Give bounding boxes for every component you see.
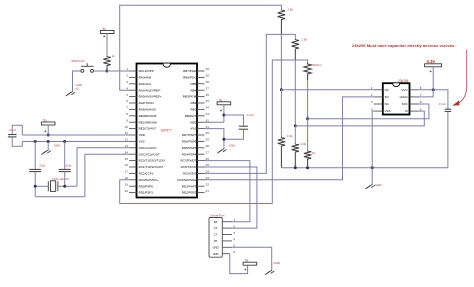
U1 pin 25 stub [197, 166, 205, 168]
svg-text:RC5/SDO: RC5/SDO [183, 172, 197, 176]
svg-text:34: 34 [206, 106, 210, 110]
switch S1 SWITCH1 [81, 63, 94, 72]
wire MCLR junction to U1 pin 1 [107, 70, 129, 72]
resistor R2 1.5k (CS divider top) [278, 10, 285, 35]
svg-text:RD2/PSP2: RD2/PSP2 [182, 191, 197, 195]
node VCC junction with 3.3v bar [432, 88, 435, 91]
resistor R7 1k (SCK divider bottom) [304, 151, 311, 168]
ground symbol at serial port [265, 270, 274, 275]
svg-text:RE1/WR/AN6: RE1/WR/AN6 [139, 120, 158, 124]
IC U2 body: 23K256 SRAM 8-pin DIP outline [383, 83, 410, 114]
svg-text:VDD: VDD [213, 252, 219, 256]
svg-text:RC6/TX/CK: RC6/TX/CK [181, 165, 197, 169]
svg-text:HOLD: HOLD [400, 95, 408, 99]
svg-text:GND: GND [229, 143, 237, 147]
IC U1 body: PIC16F877 40-pin DIP outline [137, 64, 198, 198]
capacitor C5 0.1uf at U2 [445, 108, 451, 110]
svg-text:RA4/T0CKI: RA4/T0CKI [139, 101, 154, 105]
U1 pin 28 stub [197, 147, 205, 149]
svg-text:RD7/PSP7: RD7/PSP7 [182, 133, 197, 137]
svg-text:Serial Port: Serial Port [210, 214, 224, 218]
svg-text:RE0/RD/AN5: RE0/RD/AN5 [139, 114, 157, 118]
svg-text:20: 20 [125, 189, 129, 193]
U1 pin 33 stub [197, 115, 205, 117]
svg-text:RC3/SCK/SCL: RC3/SCK/SCL [139, 178, 159, 182]
svg-text:RA1/AN1: RA1/AN1 [139, 82, 152, 86]
svg-text:RA5/AN4/SS: RA5/AN4/SS [139, 108, 156, 112]
svg-text:7: 7 [126, 106, 128, 110]
U1 pin 19 stub [129, 185, 137, 187]
svg-text:RD1/PSP1: RD1/PSP1 [139, 191, 154, 195]
svg-text:RT: RT [214, 239, 218, 243]
node B VSS junction [222, 138, 225, 141]
svg-text:3.3v: 3.3v [427, 59, 436, 64]
svg-text:RA0/AN0: RA0/AN0 [139, 76, 152, 80]
U1 pin 32 stub [197, 121, 205, 123]
U1 pin 39 stub [197, 76, 205, 78]
wire C5 bottom to ground rail [447, 111, 449, 167]
svg-text:u5: u5 [76, 87, 80, 91]
svg-text:22pf: 22pf [39, 164, 45, 168]
svg-text:16: 16 [125, 163, 129, 167]
U1 pin 17 stub [129, 172, 137, 174]
svg-text:RB3/PGM: RB3/PGM [183, 95, 197, 99]
wire crystal right to OSC1 net [58, 185, 77, 187]
U1 pin 10 stub [129, 128, 137, 130]
wire net CS_5V: U1 pin 4 RA2 up and across the top [120, 5, 282, 90]
U1 pin 23 stub [197, 179, 205, 181]
resistor R4 470ohm (SCK divider top) [304, 63, 311, 80]
wire net RX: J1 pin1 to U1 pin 26 [205, 161, 250, 222]
node OSC2 crystal junction [34, 185, 37, 188]
U2 pin 6 stub [410, 103, 419, 105]
power +5V bar VR1 (MCLR pull-up supply) [100, 31, 114, 34]
capacitor C3 22pf right [64, 142, 66, 170]
svg-text:GND: GND [213, 245, 219, 249]
svg-text:RB2: RB2 [190, 101, 196, 105]
power +5V bar VR3 (U1 VDD right) [217, 102, 231, 105]
U1 pin 34 stub [197, 108, 205, 110]
svg-text:0.1uf: 0.1uf [439, 102, 446, 106]
ground symbol right of U1 [217, 149, 226, 154]
U1 pin 40 stub [197, 70, 205, 72]
svg-text:RD4/PSP4: RD4/PSP4 [182, 152, 197, 156]
U1 pin 14 stub [129, 153, 137, 155]
U1 pin 1 stub [129, 70, 137, 72]
U1 pin 24 stub [197, 172, 205, 174]
wire ground rail of dividers to SRAM ground [281, 167, 448, 169]
power 3.3v bar VR5 [425, 64, 442, 67]
wire 5v bar to node A [223, 105, 225, 122]
U2 pin 5 stub [410, 110, 419, 112]
crystal X1 XTAL 20mhz [47, 181, 49, 191]
svg-text:28: 28 [206, 144, 210, 148]
node OSC1 cap junction [63, 185, 66, 188]
svg-text:0.1uf: 0.1uf [9, 128, 16, 132]
wire OSC2 to U1 pin 14 [35, 154, 129, 197]
svg-text:3.3k: 3.3k [301, 142, 307, 146]
svg-text:TX: TX [214, 226, 218, 230]
svg-text:CT: CT [214, 233, 218, 237]
wire SI node down to R6 [294, 126, 296, 144]
U1 pin 20 stub [129, 192, 137, 194]
svg-text:2: 2 [126, 74, 128, 78]
svg-text:23k256 Must have capacitor dir: 23k256 Must have capacitor directly accr… [352, 43, 455, 48]
wire net GND: J1 pin5 to ground [232, 247, 272, 269]
svg-text:10: 10 [125, 125, 129, 129]
node ground rail SRAM junction [371, 166, 374, 169]
wire U1 pin 31 VSS to node B [205, 129, 224, 149]
wire net SCK: divider junction to U2 pin 6 [308, 104, 429, 119]
svg-text:RE2/CS/AN7: RE2/CS/AN7 [139, 127, 157, 131]
svg-text:SO: SO [385, 95, 390, 99]
U1 pin 30 stub [197, 134, 205, 136]
svg-text:VCC: VCC [401, 88, 407, 92]
svg-text:5v: 5v [43, 119, 47, 123]
wire R2 bottom to CS node [280, 34, 282, 90]
U1 pin 29 stub [197, 140, 205, 142]
svg-text:RC2/CCP1: RC2/CCP1 [139, 172, 154, 176]
svg-text:RB4: RB4 [190, 88, 196, 92]
svg-text:9: 9 [126, 118, 128, 122]
power +5V bar VR2 (U1 VDD left) [41, 122, 55, 125]
svg-text:33: 33 [206, 112, 210, 116]
capacitor C1 0.1uf decoupling left [12, 125, 22, 135]
U1 pin 6 stub [129, 102, 137, 104]
U1 pin 8 stub [129, 115, 137, 117]
U1 pin 3 stub [129, 83, 137, 85]
J1 pin 3 stub [222, 234, 232, 236]
svg-text:RB7/PGD: RB7/PGD [183, 69, 197, 73]
U2 pin 7 stub [410, 96, 419, 98]
U1 pin 11 stub [129, 134, 137, 136]
svg-text:RB5: RB5 [190, 82, 196, 86]
wire CS node down to R5 [280, 90, 282, 137]
node 22pf C3 junction on VSS rail [63, 140, 66, 143]
U1 pin 27 stub [197, 153, 205, 155]
node R6 bottom junction [294, 166, 297, 169]
svg-text:1k: 1k [112, 54, 116, 58]
svg-text:VSS: VSS [190, 127, 196, 131]
svg-text:VSS: VSS [385, 109, 391, 113]
wire switch left contact to ground [73, 71, 81, 91]
svg-text:6: 6 [126, 99, 128, 103]
svg-text:RX: RX [214, 220, 218, 224]
wire SCK node down to R7 [307, 119, 309, 151]
svg-text:4: 4 [233, 237, 235, 241]
wire crystal left to OSC2 net [35, 185, 48, 187]
svg-text:23k256: 23k256 [398, 79, 409, 83]
wire net TX: J1 pin2 to U1 pin 25 [205, 167, 257, 228]
svg-text:36: 36 [206, 93, 210, 97]
svg-text:6: 6 [233, 250, 235, 254]
U1 pin 37 stub [197, 89, 205, 91]
ground symbol under U2 [365, 184, 374, 189]
svg-text:GND: GND [273, 261, 281, 265]
resistor R1 1k MCLR pull-up [103, 56, 110, 71]
connector J1 Serial Port [209, 218, 222, 258]
svg-text:GND: GND [54, 143, 62, 147]
svg-text:RD6/PSP6: RD6/PSP6 [182, 140, 197, 144]
svg-text:1.5k: 1.5k [287, 8, 293, 12]
annotation arrow pointing to C5 [456, 50, 467, 105]
wire net VDD: J1 pin6 to 5v bar [230, 254, 248, 274]
resistor R3 1.5k (SI divider top) [292, 39, 299, 60]
svg-text:5v: 5v [245, 259, 249, 263]
svg-text:VDD: VDD [139, 133, 146, 137]
wire node A to U1 pin 32 [205, 121, 224, 123]
svg-text:RC4/SDI/SDA: RC4/SDI/SDA [177, 178, 196, 182]
U1 pin 5 stub [129, 96, 137, 98]
U2 pin 4 stub [374, 110, 383, 112]
svg-text:5v: 5v [219, 98, 223, 102]
U1 pin 13 stub [129, 147, 137, 149]
svg-text:RC0/T1OSO/T1CKI: RC0/T1OSO/T1CKI [139, 159, 166, 163]
svg-text:0.1uf: 0.1uf [247, 113, 254, 117]
svg-text:SCK: SCK [402, 102, 408, 106]
svg-text:19: 19 [125, 182, 129, 186]
svg-text:OSC1/CLKIN: OSC1/CLKIN [139, 146, 157, 150]
ground symbol at VSS rail [47, 142, 49, 150]
svg-text:VSS: VSS [139, 140, 145, 144]
svg-text:16F877: 16F877 [160, 128, 172, 132]
svg-text:38: 38 [206, 80, 210, 84]
svg-text:RC1/T1OSI/CCP2: RC1/T1OSI/CCP2 [139, 165, 164, 169]
wire net SI: divider junction to U2 pin 5 [295, 111, 424, 126]
svg-text:5v: 5v [103, 27, 107, 31]
svg-text:37: 37 [206, 86, 210, 90]
wire OSC1 to U1 pin 13 [77, 148, 129, 187]
svg-text:RA3/AN3/VREF+: RA3/AN3/VREF+ [139, 95, 162, 99]
wire R4 bottom to SCK node [307, 80, 309, 119]
svg-text:CS: CS [385, 88, 389, 92]
wire net HOLD tied to VCC [419, 90, 434, 97]
svg-text:22pf: 22pf [65, 164, 71, 168]
node SCK divider junction [306, 117, 309, 120]
svg-text:21: 21 [206, 189, 210, 193]
svg-text:RC7/RX/DT: RC7/RX/DT [180, 159, 196, 163]
capacitor C2 22pf left [34, 142, 36, 170]
J1 pin 4 stub [222, 240, 232, 242]
J1 pin 6 stub [222, 253, 230, 255]
svg-text:RD5/PSP5: RD5/PSP5 [182, 146, 197, 150]
U1 pin 4 stub [129, 89, 137, 91]
svg-text:1k: 1k [312, 151, 316, 155]
wire net SDO: U1 pin 24 right, up and across [205, 34, 296, 173]
svg-text:VDD: VDD [190, 120, 197, 124]
svg-text:22: 22 [206, 182, 210, 186]
svg-text:SI: SI [405, 109, 408, 113]
U1 pin 36 stub [197, 96, 205, 98]
svg-text:29: 29 [206, 138, 210, 142]
svg-text:8: 8 [126, 112, 128, 116]
node MCLR junction [105, 70, 108, 73]
node CS divider junction [280, 88, 283, 91]
svg-text:RA2/AN2/VREF-: RA2/AN2/VREF- [139, 88, 161, 92]
svg-text:MCLR/VPP: MCLR/VPP [139, 69, 154, 73]
svg-text:RB0/INT: RB0/INT [185, 114, 197, 118]
node A VDD pin32 junction [222, 114, 225, 117]
svg-text:40: 40 [206, 67, 210, 71]
svg-text:17: 17 [125, 170, 129, 174]
wire 5v bar to resistor R1 [106, 34, 108, 57]
svg-text:27: 27 [206, 150, 210, 154]
wire net SO: U2 pin 2 to U1 pin 23 [205, 97, 374, 180]
U1 pin 7 stub [129, 108, 137, 110]
svg-text:15: 15 [125, 157, 129, 161]
U1 pin 2 stub [129, 76, 137, 78]
svg-text:30: 30 [206, 131, 210, 135]
svg-text:3: 3 [371, 100, 373, 104]
svg-text:3.3k: 3.3k [287, 134, 293, 138]
resistor R5 3.3k (CS divider bottom) [278, 137, 285, 168]
wire 5v bar pin to VDD rail [47, 125, 49, 135]
svg-text:GND: GND [375, 183, 383, 187]
svg-text:470ohm: 470ohm [311, 63, 322, 67]
node SI divider junction [294, 124, 297, 127]
svg-text:XTAL 20mhz: XTAL 20mhz [52, 177, 70, 181]
svg-text:1.5k: 1.5k [301, 38, 307, 42]
capacitor C4 0.1uf right decoupling [224, 115, 244, 126]
svg-text:35: 35 [206, 99, 210, 103]
wire switch to MCLR junction [94, 70, 107, 72]
ground symbol at switch [66, 91, 75, 96]
U2 pin 8 stub [410, 89, 419, 91]
svg-text:SWITCH1: SWITCH1 [71, 59, 85, 63]
node 22pf C2 junction on VSS rail [34, 140, 37, 143]
U2 pin 1 stub [374, 89, 383, 91]
svg-text:3: 3 [233, 231, 235, 235]
svg-text:NC: NC [385, 102, 389, 106]
svg-text:RB1: RB1 [190, 108, 196, 112]
svg-text:RD0/PSP0: RD0/PSP0 [139, 184, 154, 188]
node VDD rail junction [47, 134, 50, 137]
U1 pin 31 stub [197, 128, 205, 130]
U1 pin 38 stub [197, 83, 205, 85]
wire 3.3v bar pin to VCC node [432, 67, 434, 90]
wire net CS: divider junction to U2 pin 1 [281, 89, 373, 91]
wire net SCK_5V: U1 pin 18 left, down, across bottom, up to R4 [120, 60, 308, 204]
U1 pin 16 stub [129, 166, 137, 168]
J1 pin 5 stub [222, 246, 232, 248]
svg-text:3: 3 [126, 80, 128, 84]
wire R3 bottom to SI node [294, 60, 296, 126]
wire net VSS: U2 pin 4 to ground rail [372, 111, 374, 167]
U1 pin 9 stub [129, 121, 137, 123]
J1 pin 1 stub [222, 221, 232, 223]
svg-text:RB6/PGC: RB6/PGC [183, 76, 197, 80]
U1 pin 35 stub [197, 102, 205, 104]
U1 pin 12 stub [129, 140, 137, 142]
resistor R6 3.3k (SI divider bottom) [292, 144, 299, 168]
power +5V bar VR4 (serial port) [243, 262, 257, 265]
svg-text:39: 39 [206, 74, 210, 78]
U1 pin 15 stub [129, 160, 137, 162]
svg-text:5: 5 [126, 93, 128, 97]
U1 pin 21 stub [197, 192, 205, 194]
svg-text:RD3/PSP3: RD3/PSP3 [182, 184, 197, 188]
node VSS rail ground junction [47, 140, 50, 143]
U1 pin 18 stub [129, 179, 137, 181]
J1 pin 2 stub [222, 227, 232, 229]
U2 pin 2 stub [374, 96, 383, 98]
wire VDD rail to U1 pin 11 [22, 134, 129, 136]
U1 pin 26 stub [197, 160, 205, 162]
U2 pin 3 stub [374, 103, 383, 105]
U1 pin 22 stub [197, 185, 205, 187]
wire net VCC: U2 pin 8 to 3.3v and C5 [419, 90, 448, 109]
svg-text:OSC2/CLKOUT: OSC2/CLKOUT [139, 152, 160, 156]
wire VSS rail to U1 pin 12 [22, 141, 129, 143]
node R7 bottom junction [306, 166, 309, 169]
